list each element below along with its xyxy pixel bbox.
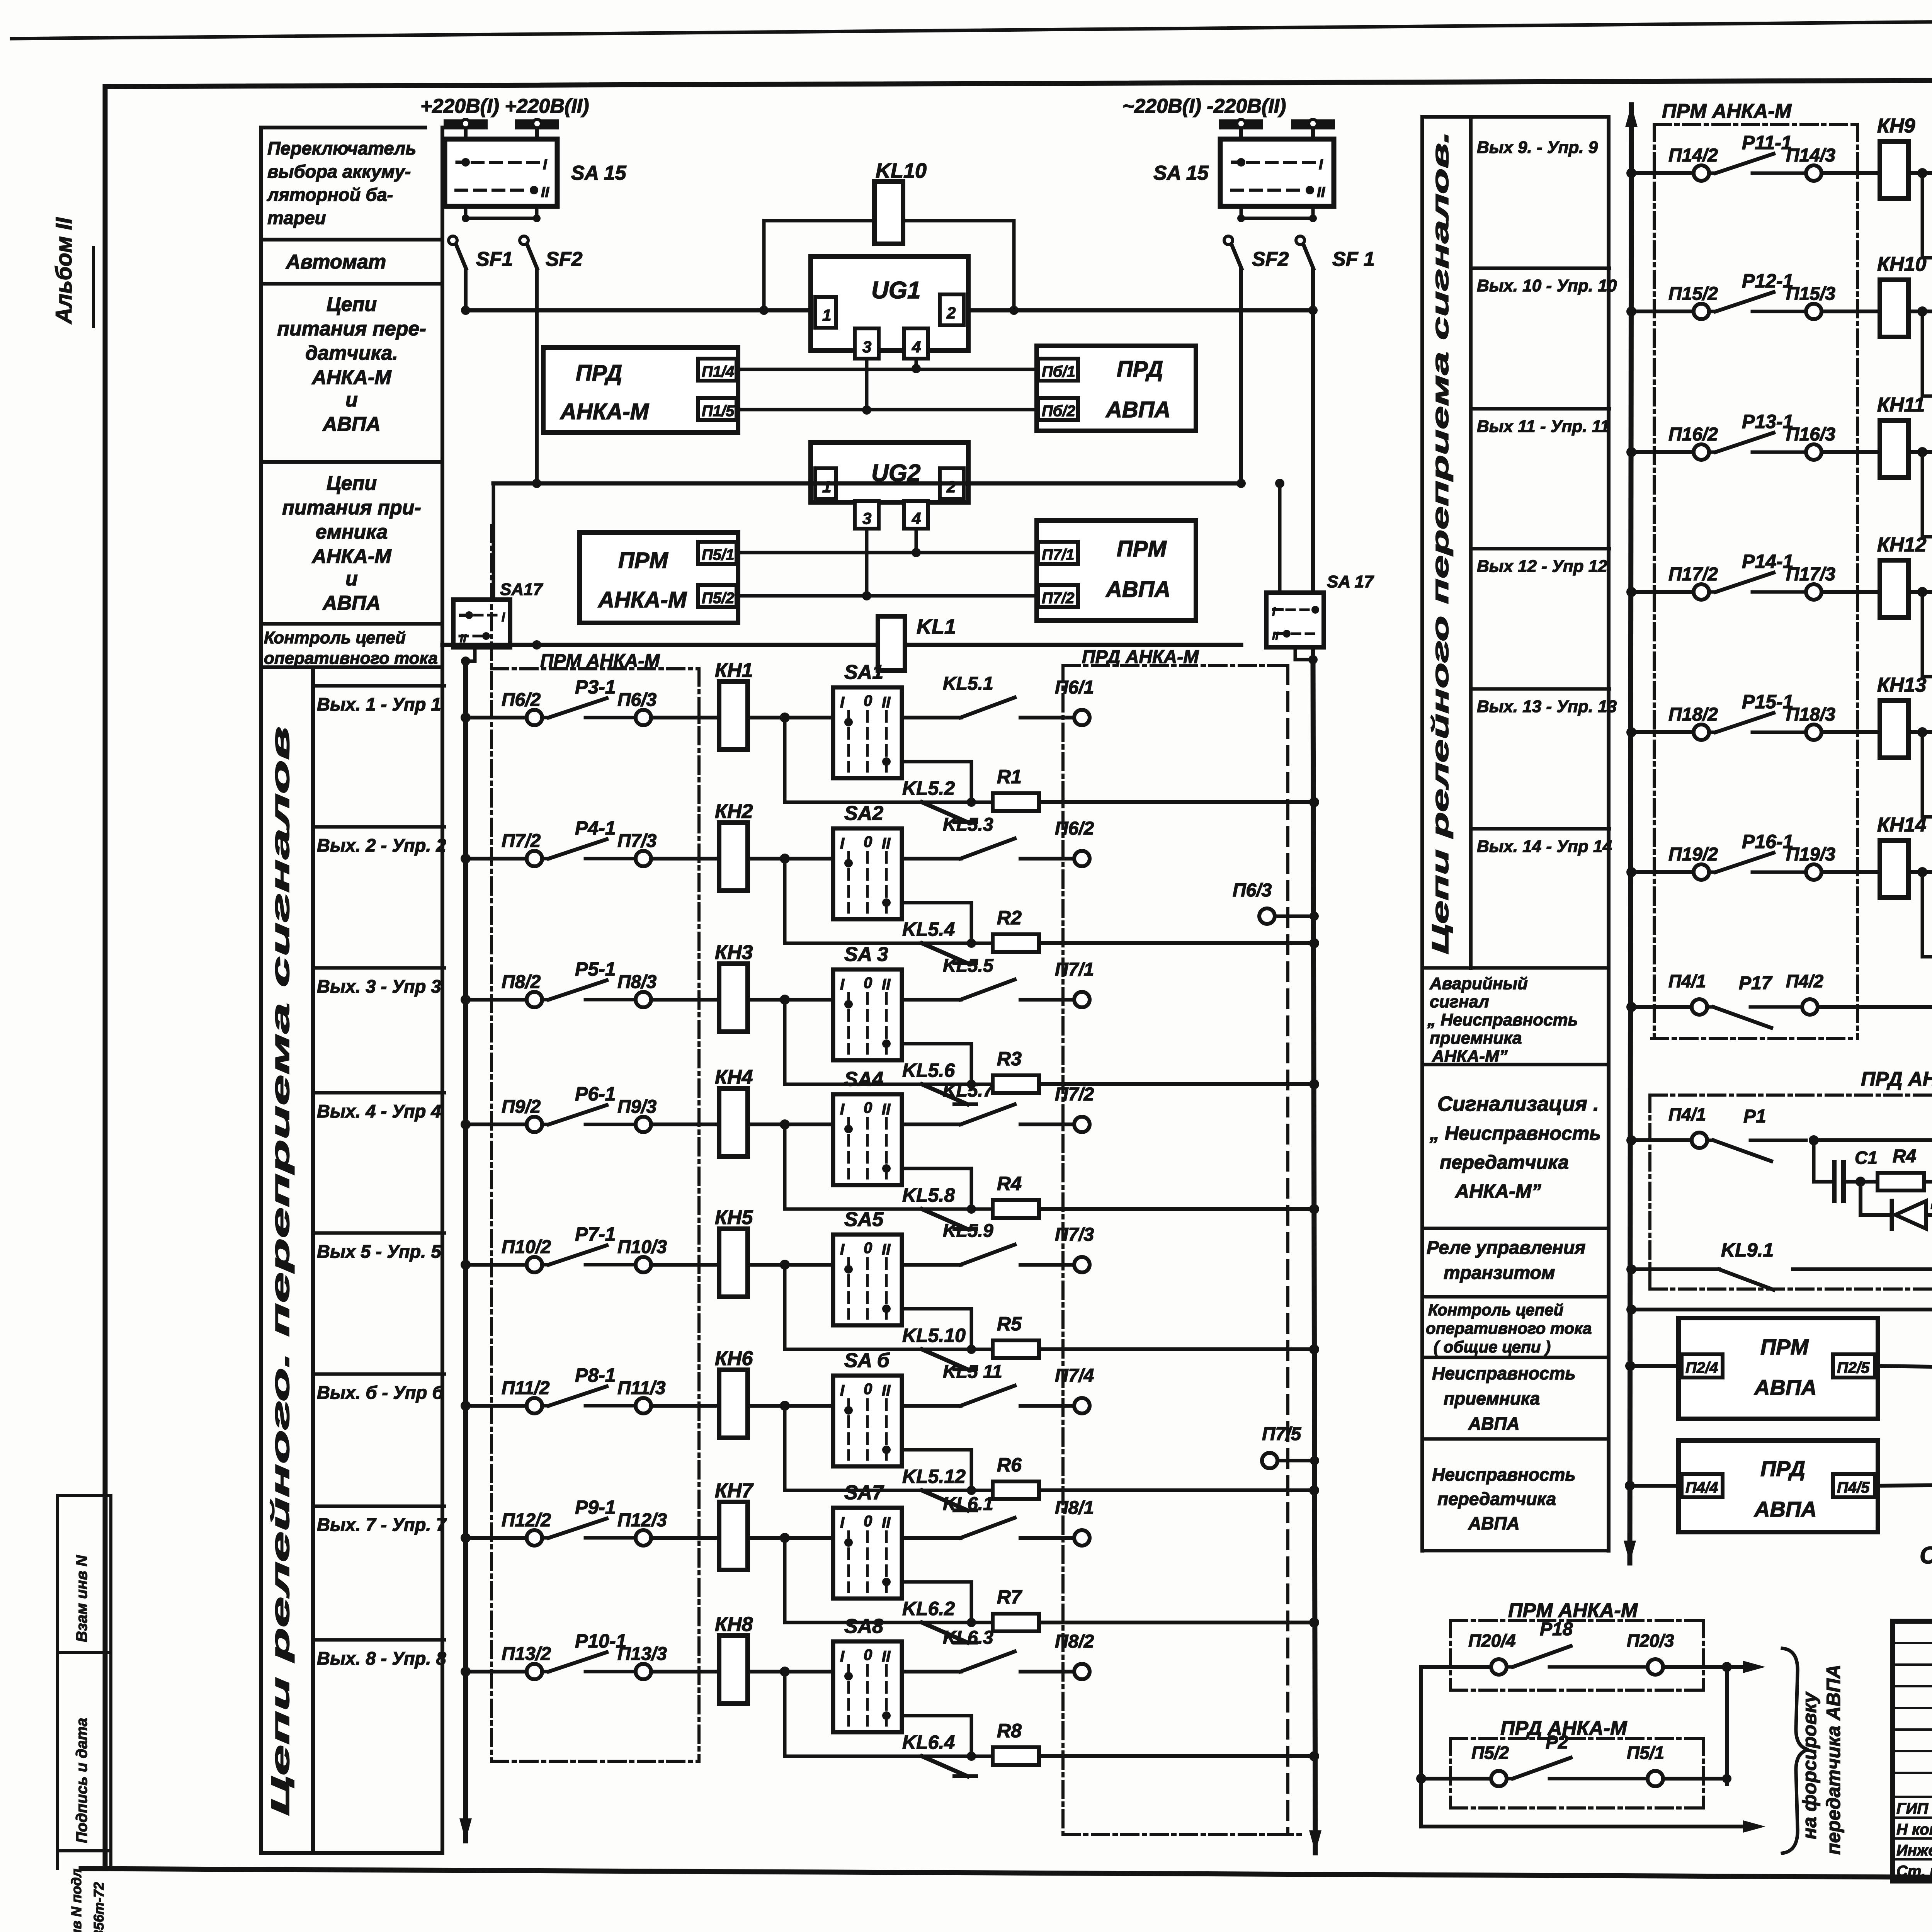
wire P1/4 to Pb/1: [736, 368, 1038, 371]
svg-text:АНКА-М: АНКА-М: [311, 545, 392, 568]
svg-text:тареи: тареи: [267, 207, 326, 228]
svg-text:П7/1: П7/1: [1042, 546, 1074, 563]
svg-text:Цепи релейного переприема сигн: Цепи релейного переприема сигналов.: [1427, 131, 1453, 954]
svg-text:3: 3: [862, 338, 871, 356]
svg-text:Р17: Р17: [1739, 973, 1773, 993]
relay coil КН12: [1880, 560, 1908, 617]
svg-text:П7/1: П7/1: [1055, 959, 1094, 980]
contact П13/2 Р10-1 П13/3: [527, 1664, 542, 1679]
wire П16/3 to coil: [1821, 450, 1880, 454]
svg-text:П5/1: П5/1: [1627, 1743, 1664, 1763]
wire coil to switch SA 11: [1908, 450, 1932, 454]
relay coil КН11: [1880, 420, 1908, 478]
pin 1 of UG1: [815, 297, 836, 328]
switch SA17 right: [1266, 593, 1324, 647]
svg-text:АНКА-М”: АНКА-М”: [1454, 1180, 1541, 1202]
wire П5/1 to vertical: [1663, 1777, 1727, 1781]
svg-text:Контроль цепей: Контроль цепей: [1428, 1301, 1563, 1319]
pin 3 of UG1: [855, 328, 879, 359]
resistor R5: [971, 1348, 993, 1351]
svg-text:Вых. 4 - Упр 4: Вых. 4 - Упр 4: [317, 1101, 441, 1121]
terminal П7/3: [1020, 1263, 1074, 1267]
wire row 9 from bus: [1626, 168, 1636, 178]
svg-text:UG1: UG1: [871, 277, 920, 304]
svg-text:КН11: КН11: [1877, 394, 1925, 416]
pin P4/5: [1833, 1474, 1875, 1497]
wire coil to switch SA5: [747, 1263, 833, 1267]
svg-text:на форсировку: на форсировку: [1799, 1691, 1820, 1839]
svg-text:SA 17: SA 17: [1327, 572, 1374, 591]
resistor R6: [971, 1489, 993, 1492]
svg-text:Цепи: Цепи: [327, 472, 377, 495]
relay coil КН5: [719, 1229, 748, 1297]
contact П12/2 Р9-1 П12/3: [527, 1530, 542, 1546]
wire SA lower branch row 8: [902, 1716, 971, 1756]
contact KL6.1: [902, 1536, 961, 1540]
svg-text:П13/2: П13/2: [502, 1644, 551, 1664]
svg-text:0: 0: [864, 1513, 872, 1530]
terminal П7/5 on collector: [1262, 1453, 1277, 1468]
svg-text:Неисправность: Неисправность: [1432, 1363, 1576, 1383]
svg-text:передатчика: передатчика: [1440, 1151, 1569, 1173]
svg-text:KL5.10: KL5.10: [902, 1325, 966, 1346]
svg-text:+220В(I) +220В(II): +220В(I) +220В(II): [420, 95, 589, 117]
svg-text:питания при-: питания при-: [282, 497, 421, 519]
contact KL6.4: [922, 1756, 968, 1776]
terminal П6/3 on collector: [1259, 908, 1275, 924]
svg-text:II: II: [882, 835, 891, 852]
diode D1: [1859, 1182, 1862, 1215]
contact П9/2 Р6-1 П9/3: [527, 1117, 542, 1132]
switch SA17 left: [453, 600, 510, 647]
resistor R8: [971, 1755, 993, 1758]
svg-text:R4: R4: [1893, 1146, 1916, 1167]
contact П10/2 Р7-1 П10/3: [527, 1257, 542, 1272]
svg-text:R1: R1: [997, 766, 1022, 787]
svg-text:I: I: [1319, 156, 1323, 173]
row divider label Вых. б - Упр б: [313, 1372, 444, 1376]
terminal П6/2: [1020, 857, 1074, 861]
wire SA lower branch row 6: [902, 1450, 971, 1490]
svg-text:П6/2: П6/2: [502, 690, 541, 710]
fuse F2 left: [515, 119, 559, 129]
svg-text:АНКА-М”: АНКА-М”: [1432, 1047, 1508, 1066]
wire row 12 from bus: [1626, 587, 1636, 597]
svg-text:Инв N подл: Инв N подл: [68, 1869, 84, 1932]
pin 2 of UG2: [940, 468, 964, 499]
wire UG2 bus to SA17 right: [1278, 483, 1282, 593]
svg-text:ПРМ: ПРМ: [618, 548, 668, 573]
wire SA15 left outputs: [464, 206, 468, 218]
svg-text:П8/2: П8/2: [502, 972, 541, 992]
resistor R3: [971, 1083, 993, 1086]
svg-text:П9/3: П9/3: [617, 1097, 657, 1117]
svg-text:~220В(I) -220В(II): ~220В(I) -220В(II): [1122, 95, 1286, 117]
svg-text:SA4: SA4: [844, 1068, 883, 1090]
svg-text:КН2: КН2: [715, 800, 753, 823]
svg-text:KL5.3: KL5.3: [943, 815, 993, 835]
svg-text:П2/4: П2/4: [1685, 1359, 1718, 1376]
wire П19/3 to coil: [1821, 870, 1880, 874]
sheet top edge line: [12, 16, 1932, 39]
svg-text:АВПА: АВПА: [1753, 1375, 1817, 1400]
wire UG2 pin4 to P5/1 line: [915, 529, 918, 553]
svg-text:П18/3: П18/3: [1786, 704, 1835, 725]
wire row 8 from bus: [461, 1667, 471, 1677]
svg-text:Р2: Р2: [1546, 1732, 1568, 1753]
svg-text:KL5.4: KL5.4: [902, 918, 955, 940]
svg-text:Р9-1: Р9-1: [575, 1497, 616, 1518]
pin Pb/1: [1038, 359, 1078, 381]
svg-text:АВПА: АВПА: [1105, 577, 1170, 602]
svg-text:II: II: [882, 1241, 891, 1258]
row divider label Вых. 7 - Упр. 7: [313, 1505, 444, 1508]
svg-text:Вых. 2 - Упр. 2: Вых. 2 - Упр. 2: [317, 835, 446, 855]
svg-text:КН1: КН1: [715, 659, 753, 682]
svg-text:П17/2: П17/2: [1668, 564, 1718, 585]
unit PRM AVPA lower: [1679, 1318, 1878, 1419]
wire R6 to collector: [1039, 1488, 1314, 1492]
pin 4 of UG2: [904, 501, 928, 529]
svg-text:КН5: КН5: [715, 1206, 753, 1229]
svg-text:R5: R5: [997, 1313, 1022, 1335]
svg-text:1: 1: [822, 306, 831, 324]
wire R3 to collector: [1039, 1082, 1314, 1086]
svg-text:транзитом: транзитом: [1444, 1263, 1555, 1283]
relay coil KL10: [764, 219, 874, 223]
svg-text:П19/3: П19/3: [1786, 844, 1835, 865]
wire coil to switch SA 14: [1908, 870, 1932, 874]
left label column grid: [259, 128, 263, 1853]
svg-text:П7/2: П7/2: [1055, 1084, 1094, 1105]
svg-text:1: 1: [822, 478, 831, 496]
breaker SF2 right: [1224, 236, 1233, 245]
wire SA lower branch row 7: [902, 1582, 971, 1622]
svg-text:I: I: [840, 1382, 845, 1399]
drawing frame: [105, 78, 1932, 87]
wire R8 to collector: [1039, 1754, 1314, 1758]
wire coil to switch SA1: [747, 716, 833, 719]
dashed box PRD ANKA-M forcing: [1449, 1738, 1452, 1808]
svg-text:П5/2: П5/2: [702, 590, 734, 607]
contact KL5.12: [922, 1490, 968, 1510]
svg-text:II: II: [541, 184, 550, 201]
svg-text:Ст. техн: Ст. техн: [1896, 1863, 1932, 1880]
relay coil КН13: [1880, 701, 1908, 758]
wire SA15 right outputs: [1240, 206, 1243, 218]
wire row 7 from bus: [461, 1533, 471, 1543]
svg-text:Р6-1: Р6-1: [575, 1083, 616, 1105]
section dividers right label column: [1422, 966, 1609, 970]
row divider label Вых. 8 - Упр. 8: [313, 1638, 444, 1642]
wire coil to switch SA9: [1908, 171, 1932, 175]
relay coil КН4: [719, 1088, 748, 1156]
wire coil to switch SA12: [1908, 590, 1932, 594]
bus operative current right half: [1625, 105, 1638, 127]
svg-text:Вых. 13 - Упр. 13: Вых. 13 - Упр. 13: [1477, 697, 1617, 716]
relay coil КН1: [719, 682, 748, 750]
svg-text:П17/3: П17/3: [1786, 564, 1835, 585]
contact П15/2 Р12-1 П15/3: [1694, 304, 1709, 319]
svg-text:ПРД АНКА-М: ПРД АНКА-М: [1082, 647, 1199, 667]
svg-text:SA 15: SA 15: [1153, 162, 1209, 184]
svg-text:SA7: SA7: [844, 1481, 884, 1504]
svg-text:и: и: [345, 568, 358, 590]
svg-text:П4/1: П4/1: [1668, 971, 1706, 991]
svg-text:„ Неисправность: „ Неисправность: [1427, 1010, 1578, 1029]
svg-text:KL10: KL10: [876, 159, 927, 182]
svg-text:4: 4: [912, 338, 921, 356]
fuse F4 right: [1291, 119, 1335, 129]
wire P5/1 to P7/1: [736, 551, 1038, 554]
svg-text:II: II: [1272, 630, 1279, 643]
wire UG1 pin3 to P1/5 line: [865, 359, 869, 410]
contact П14/2 Р11-1 П14/3: [1694, 165, 1709, 181]
contact KL5.6: [922, 1084, 968, 1104]
svg-text:Вых 9. - Упр. 9: Вых 9. - Упр. 9: [1477, 138, 1598, 157]
pin P1/4: [698, 359, 736, 381]
wire П20/3 to arrow: [1663, 1665, 1745, 1669]
wire П13/3 to coil: [651, 1670, 719, 1673]
unit UG1: [811, 257, 968, 350]
pin Pb/2: [1038, 398, 1078, 420]
pin 1 of UG2: [815, 468, 836, 499]
svg-text:АВПА: АВПА: [322, 413, 381, 435]
dashed boundary PRM ANKA-M left: [490, 526, 493, 1761]
row divider label Вых 12 - Упр 12: [1472, 547, 1609, 551]
svg-text:R2: R2: [997, 907, 1022, 929]
svg-text:ПРМ АНКА-М: ПРМ АНКА-М: [1662, 100, 1792, 122]
wire transmitter fault AVPA row: [1625, 1481, 1635, 1491]
svg-text:питания пере-: питания пере-: [277, 318, 426, 340]
svg-text:КН8: КН8: [715, 1613, 753, 1636]
contact KL5.4: [922, 943, 968, 963]
resistor R7: [971, 1621, 993, 1624]
svg-text:ПРМ АНКА-М: ПРМ АНКА-М: [1508, 1599, 1638, 1622]
svg-text:П6/2: П6/2: [1055, 818, 1094, 839]
svg-text:I: I: [840, 694, 845, 711]
svg-text:SF 1: SF 1: [1332, 248, 1375, 270]
wire coil to switch SA б: [747, 1404, 833, 1408]
pin P7/1: [1038, 542, 1078, 564]
svg-text:приемника: приемника: [1444, 1388, 1540, 1408]
row divider label Вых. 4 - Упр 4: [313, 1091, 444, 1095]
wire SA lower branch row 1: [902, 762, 971, 802]
svg-text:Вых. 3 - Упр 3: Вых. 3 - Упр 3: [317, 976, 441, 997]
svg-text:KL5.8: KL5.8: [902, 1184, 955, 1206]
pin P2/4: [1682, 1354, 1723, 1378]
contact KL5 11: [902, 1404, 961, 1408]
svg-text:П10/2: П10/2: [502, 1237, 551, 1257]
bus battery II (UG2 bus): [493, 481, 1241, 486]
wire coil to switch SA8: [747, 1670, 833, 1673]
svg-text:КН3: КН3: [715, 941, 753, 964]
svg-text:Альбом II: Альбом II: [51, 217, 77, 325]
svg-text:I: I: [840, 976, 845, 993]
svg-text:0: 0: [864, 1646, 872, 1663]
svg-text:КН14: КН14: [1877, 814, 1926, 836]
svg-text:П4/1: П4/1: [1668, 1104, 1706, 1124]
contact П5/2 P2 П5/1: [1416, 1774, 1426, 1784]
terminal П6/1: [1020, 716, 1074, 719]
wire coil to switch SA 10: [1908, 310, 1932, 313]
svg-text:П7/4: П7/4: [1055, 1366, 1094, 1386]
svg-text:R6: R6: [997, 1454, 1022, 1476]
wire SA lower branch row 3: [902, 1044, 971, 1084]
svg-text:П8/2: П8/2: [1055, 1631, 1094, 1652]
svg-text:Реле управления: Реле управления: [1427, 1238, 1585, 1258]
svg-text:П15/2: П15/2: [1668, 284, 1718, 304]
wire П10/3 to coil: [651, 1263, 719, 1267]
resistor R1: [971, 801, 993, 804]
svg-text:KL5.6: KL5.6: [902, 1060, 955, 1081]
wire row 10 from bus: [1626, 306, 1636, 316]
svg-text:„ Неисправность: „ Неисправность: [1429, 1122, 1601, 1144]
terminal П7/1: [1020, 998, 1074, 1002]
svg-text:Автомат: Автомат: [285, 251, 386, 273]
svg-text:П18/2: П18/2: [1668, 704, 1718, 725]
relay coil КН14: [1880, 840, 1908, 898]
pin P4/4: [1682, 1474, 1723, 1497]
svg-text:0: 0: [864, 975, 872, 992]
wire P5/2 to P7/2: [736, 594, 1038, 598]
svg-text:II: II: [882, 1382, 891, 1399]
wire emergency row to KL2: [1818, 1005, 1932, 1009]
svg-text:КН6: КН6: [715, 1347, 753, 1370]
svg-text:I: I: [543, 156, 548, 173]
svg-text:2: 2: [946, 304, 956, 322]
dashed boundary PRM ANKA-M right: [1653, 124, 1656, 1039]
wire R4 to collector: [1039, 1207, 1314, 1211]
svg-text:Вых 5 - Упр. 5: Вых 5 - Упр. 5: [317, 1241, 441, 1262]
svg-text:П1/4: П1/4: [702, 363, 734, 380]
svg-text:0: 0: [864, 833, 872, 850]
wire П15/3 to coil: [1821, 310, 1880, 313]
svg-text:П20/3: П20/3: [1627, 1631, 1674, 1651]
svg-text:Р18: Р18: [1540, 1619, 1573, 1639]
wire receiver fault AVPA row: [1625, 1361, 1635, 1371]
contact KL5.9: [902, 1263, 961, 1267]
svg-text:Инженер: Инженер: [1896, 1842, 1932, 1859]
svg-text:П7/2: П7/2: [1042, 590, 1074, 607]
capacitor C1: [1814, 1180, 1830, 1184]
svg-text:П7/3: П7/3: [617, 831, 657, 851]
row divider label Вых. 1 - Упр 1: [313, 684, 444, 688]
svg-text:ПРМ: ПРМ: [1117, 536, 1167, 561]
wire П7/3 to coil: [651, 857, 719, 861]
dashed box PRM ANKA-M forcing: [1449, 1621, 1452, 1690]
wire row 6 from bus: [461, 1401, 471, 1411]
wire П17/3 to coil: [1821, 590, 1880, 594]
svg-text:П7/2: П7/2: [502, 831, 541, 851]
svg-text:SA 15: SA 15: [571, 162, 627, 184]
svg-text:KL5.2: KL5.2: [902, 777, 955, 799]
contact KL9.1 transit: [1626, 1264, 1636, 1274]
svg-text:АВПА: АВПА: [1468, 1513, 1520, 1533]
svg-text:П14/3: П14/3: [1786, 145, 1835, 166]
svg-text:Сигнализация .: Сигнализация .: [1437, 1092, 1599, 1116]
relay coil КН3: [719, 964, 748, 1032]
svg-text:R8: R8: [997, 1720, 1022, 1742]
wire SA lower branch row 4: [902, 1168, 971, 1209]
svg-text:Пб/1: Пб/1: [1042, 363, 1075, 380]
contact П17/2 Р14-1 П17/3: [1694, 584, 1709, 600]
svg-text:Пб/2: Пб/2: [1042, 403, 1075, 420]
resistor R2: [971, 942, 993, 945]
contact KL5.5: [902, 998, 961, 1002]
svg-text:АВПА: АВПА: [1753, 1497, 1817, 1521]
wire row 11 from bus: [1626, 447, 1636, 457]
svg-text:Вых. 7 - Упр. 7: Вых. 7 - Упр. 7: [317, 1514, 447, 1535]
svg-text:емника: емника: [316, 521, 388, 543]
wire П12/3 to coil: [651, 1536, 719, 1540]
wire SA17 right output: [1295, 647, 1313, 660]
wire R5 to collector: [1039, 1347, 1314, 1351]
svg-text:0: 0: [864, 1099, 872, 1116]
relay coil КН8: [719, 1636, 748, 1704]
wire row 1 from bus: [461, 713, 471, 723]
resistor R4: [971, 1207, 993, 1211]
svg-text:П4/2: П4/2: [1786, 971, 1823, 991]
wire R1 to collector: [1039, 800, 1314, 804]
wire UG2 bus to SA17 left: [492, 483, 495, 600]
contact П16/2 Р13-1 П16/3: [1694, 444, 1709, 460]
wire UG1 pin4 to P1/4 line: [915, 359, 918, 369]
fuse F3 right: [1219, 119, 1263, 129]
contact П4/1 P1: [1626, 1135, 1636, 1145]
svg-text:П8/1: П8/1: [1055, 1498, 1094, 1518]
svg-text:Аварийный: Аварийный: [1429, 974, 1528, 993]
svg-text:KL6.4: KL6.4: [902, 1731, 955, 1753]
svg-text:SA17: SA17: [500, 580, 544, 599]
svg-text:датчика.: датчика.: [305, 342, 398, 364]
contact П20/4 P18 П20/3: [1421, 1665, 1491, 1669]
wire row 2 from bus: [461, 854, 471, 864]
svg-text:SA8: SA8: [844, 1615, 883, 1638]
svg-text:П14/2: П14/2: [1668, 145, 1718, 166]
svg-text:передатчика: передатчика: [1437, 1489, 1556, 1509]
wire coil to switch SA 3: [747, 998, 833, 1002]
bus battery I (UG1 bus): [466, 308, 1313, 313]
svg-text:Вых 11 - Упр. 11: Вых 11 - Упр. 11: [1477, 417, 1609, 436]
svg-text:Схема выполнена на листах 12,: Схема выполнена на листах 12,13: [1920, 1542, 1932, 1569]
svg-text:KL5.12: KL5.12: [902, 1466, 966, 1487]
wire coil to switch SA4: [747, 1122, 833, 1126]
pin P7/2: [1038, 585, 1078, 607]
pin P5/1: [698, 542, 736, 564]
relay coil КН2: [719, 823, 748, 891]
row divider label Вых. 3 - Упр 3: [313, 966, 444, 970]
unit PRM ANKA-M: [580, 532, 738, 623]
battery selector switch SA15 left: [445, 139, 557, 206]
svg-text:R4: R4: [997, 1173, 1022, 1194]
svg-text:П13/3: П13/3: [617, 1644, 667, 1664]
relay coil КН7: [719, 1502, 748, 1570]
svg-text:сигнал: сигнал: [1430, 992, 1489, 1011]
svg-text:KL5.1: KL5.1: [943, 673, 993, 694]
wire coil to switch SA7: [747, 1536, 833, 1540]
wire R7 to collector: [1039, 1621, 1314, 1624]
wire П8/3 to coil: [651, 998, 719, 1002]
row divider label Вых. 10 - Упр. 10: [1472, 267, 1609, 270]
pin P5/2: [698, 585, 736, 607]
terminal П8/1: [1020, 1536, 1074, 1540]
svg-text:оперативного тока: оперативного тока: [264, 649, 438, 668]
svg-text:П1/5: П1/5: [702, 403, 735, 420]
svg-text:Вых. 14 - Упр 14: Вых. 14 - Упр 14: [1477, 837, 1612, 856]
svg-text:КН12: КН12: [1877, 534, 1926, 556]
wire row 5 from bus: [461, 1260, 471, 1270]
